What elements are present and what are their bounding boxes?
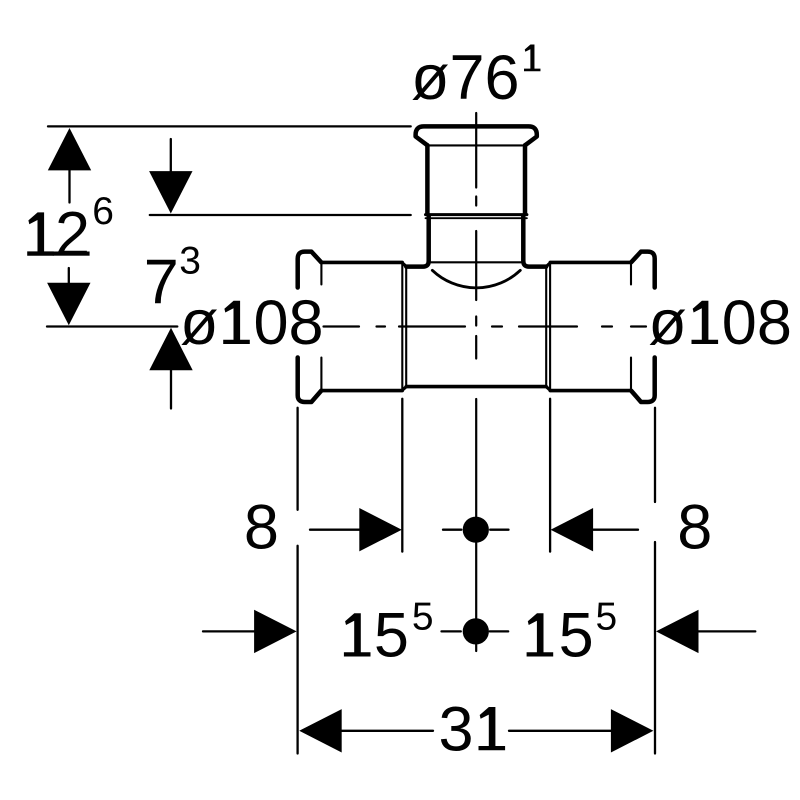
- dim row2 right arrow: [656, 610, 699, 653]
- dim row2 center dot: [463, 618, 489, 644]
- left bead inner line: [320, 265, 322, 389]
- body bottom: [406, 385, 546, 389]
- right seam outer line: [549, 264, 551, 390]
- left bead outline: [298, 252, 322, 402]
- left seam outer line: [401, 264, 403, 390]
- svg-text:ø: ø: [180, 288, 218, 358]
- tee branch seam lower line: [426, 217, 527, 219]
- svg-text:8: 8: [244, 493, 279, 563]
- dim row1 center dash right: [490, 529, 508, 531]
- dimension line centerline level left (y=326.5): [47, 325, 177, 327]
- label 15.5 left: [344, 613, 371, 656]
- arrow down 7.3 top: [149, 171, 192, 213]
- tee branch wall right below seam: [523, 216, 546, 267]
- left seam inner line: [405, 267, 407, 386]
- right socket top: [550, 261, 631, 265]
- extension line right seam (x=550.1): [549, 399, 551, 552]
- dim row1 right line: [593, 529, 638, 531]
- arrow stem 7.3 bottom: [170, 370, 172, 409]
- svg-text:2: 2: [55, 200, 90, 270]
- tee branch seam upper line: [426, 213, 527, 216]
- tee branch socket wall right: [523, 145, 528, 213]
- dim row3 right line: [509, 730, 612, 732]
- dim row3 left line: [342, 730, 434, 732]
- dim row2 left line: [203, 630, 254, 632]
- svg-text:ø: ø: [648, 288, 686, 358]
- extension line right (x=655): [654, 408, 656, 754]
- svg-text:5: 5: [374, 601, 409, 671]
- arrow stem 7.3 top: [170, 139, 172, 172]
- superscript 1 of 76.1: [524, 44, 540, 71]
- svg-text:6: 6: [92, 190, 114, 233]
- svg-text:3: 3: [179, 239, 201, 282]
- dim row2 right line: [698, 630, 755, 632]
- dim row3 left arrow: [299, 709, 342, 752]
- arrow stem 12.6 top: [68, 170, 70, 203]
- dim row2 left arrow: [254, 610, 297, 653]
- right bead inner line: [630, 265, 632, 389]
- tee branch bead inner line: [430, 144, 523, 146]
- dim row2 center dash left: [442, 630, 461, 632]
- svg-text:3: 3: [439, 694, 474, 764]
- svg-text:08: 08: [254, 288, 324, 358]
- dim row1 right arrow: [551, 508, 594, 551]
- left socket top: [321, 261, 402, 265]
- dim row1 center dash left: [443, 529, 461, 531]
- svg-text:08: 08: [722, 288, 792, 358]
- horizontal centerline: [324, 325, 647, 327]
- seam step connectors: [402, 263, 550, 391]
- arrow up 12.6 top: [48, 128, 91, 170]
- right seam inner line: [545, 267, 547, 386]
- right bead outline: [631, 252, 655, 402]
- svg-text:5: 5: [412, 596, 434, 639]
- vertical centerline: [475, 113, 477, 359]
- dim row1 left line: [310, 529, 360, 531]
- right socket bottom: [550, 389, 631, 393]
- svg-text:5: 5: [596, 596, 618, 639]
- arrow up 7.3 bottom: [149, 328, 192, 370]
- dimension line top (branch bead top level, y=126.4): [48, 125, 411, 127]
- svg-text:ø76: ø76: [411, 43, 520, 113]
- left socket bottom: [321, 389, 402, 393]
- dim row2 center dash right: [490, 630, 509, 632]
- dimension line branch seam level (y=215): [150, 214, 411, 216]
- extension line left (x=297.6): [296, 408, 298, 754]
- tee branch bead (top press end): [416, 126, 537, 145]
- svg-text:7: 7: [144, 248, 179, 318]
- tee branch wall left below seam: [406, 216, 428, 267]
- svg-text:5: 5: [559, 601, 594, 671]
- svg-text:8: 8: [677, 493, 712, 563]
- label 12.6: digit 1: [27, 212, 54, 255]
- extension line left seam (x=402.3): [401, 399, 403, 552]
- label 15.5 right: [527, 613, 554, 656]
- dim row1 center dot: [463, 517, 489, 543]
- tee branch socket wall left: [425, 145, 430, 213]
- dim row1 left arrow: [359, 508, 402, 551]
- dim row3 right arrow: [611, 709, 654, 752]
- vertical center extension line: [475, 399, 477, 651]
- tee branch base line (body silhouette through branch): [431, 261, 521, 263]
- arrow stem 12.6 bottom: [68, 268, 70, 285]
- arrow down 12.6 bottom: [47, 283, 90, 325]
- tee saddle arc: [432, 270, 520, 288]
